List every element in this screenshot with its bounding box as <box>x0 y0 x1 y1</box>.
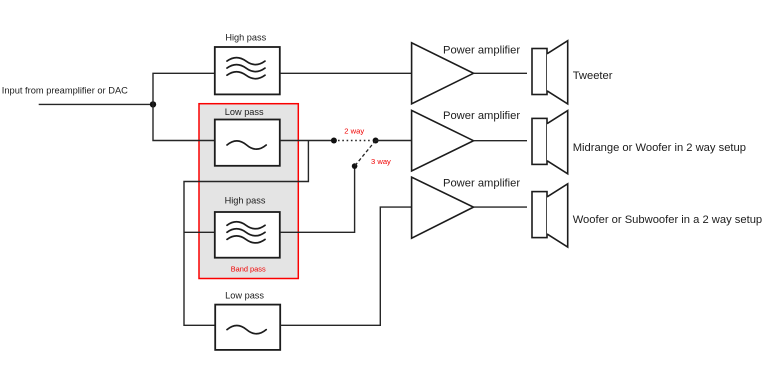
svg-text:Midrange or Woofer in 2 way se: Midrange or Woofer in 2 way setup <box>573 142 746 154</box>
node switch right <box>373 138 379 144</box>
high pass 1 waves <box>227 58 265 79</box>
high pass 2 waves <box>227 222 265 243</box>
svg-text:High pass: High pass <box>225 195 266 205</box>
svg-text:Input from preamplifier or DAC: Input from preamplifier or DAC <box>2 86 128 96</box>
svg-text:Power amplifier: Power amplifier <box>443 110 520 122</box>
amplifier A1 triangle <box>412 43 474 104</box>
filter high pass 1 box <box>215 47 280 94</box>
svg-text:Low pass: Low pass <box>225 291 264 301</box>
wire high pass 2 to 3-way node <box>280 166 355 232</box>
wire input <box>39 103 153 105</box>
low pass 2 sine <box>227 325 266 333</box>
wire dashed 3 way arm <box>355 141 376 167</box>
svg-text:High pass: High pass <box>225 32 266 42</box>
node switch 3 way <box>352 163 358 169</box>
wire wrap from low pass 1 output down-left <box>184 141 308 326</box>
svg-text:Low pass: Low pass <box>225 107 264 117</box>
amplifier A2 triangle <box>412 110 474 171</box>
speaker tweeter <box>532 41 568 104</box>
wire dotted 2 way <box>338 140 372 142</box>
wire switch to amp 2 <box>376 140 412 142</box>
wire junction to low pass 1 <box>153 104 215 140</box>
wire junction to high pass 1 <box>153 73 215 104</box>
svg-text:2 way: 2 way <box>344 127 364 136</box>
wire amp 1 to tweeter <box>474 72 528 74</box>
filter high pass 2 box <box>215 212 280 258</box>
wire high pass 1 to amp 1 <box>280 72 412 74</box>
svg-text:Power amplifier: Power amplifier <box>443 178 520 190</box>
svg-text:Tweeter: Tweeter <box>573 70 613 82</box>
speaker woofer <box>532 184 568 247</box>
svg-text:Band pass: Band pass <box>231 264 266 273</box>
node junction input <box>150 101 156 107</box>
wire low pass 1 to switch <box>280 140 334 142</box>
amplifier A3 triangle <box>412 177 474 238</box>
filter low pass 2 box <box>215 305 280 350</box>
node switch left <box>331 138 337 144</box>
band pass group box <box>199 104 298 279</box>
wire low pass 2 to amp 3 <box>280 207 411 325</box>
filter low pass 1 box <box>215 120 280 166</box>
speaker midrange <box>532 111 568 174</box>
svg-text:Power amplifier: Power amplifier <box>443 45 520 57</box>
svg-text:3 way: 3 way <box>371 157 391 166</box>
svg-text:Woofer or Subwoofer in a 2 way: Woofer or Subwoofer in a 2 way setup <box>573 214 762 226</box>
wire amp 2 to midrange speaker <box>474 140 528 142</box>
wire amp 3 to woofer speaker <box>474 206 528 208</box>
wire branch to high pass 2 <box>184 231 215 233</box>
low pass 1 sine <box>227 141 266 149</box>
